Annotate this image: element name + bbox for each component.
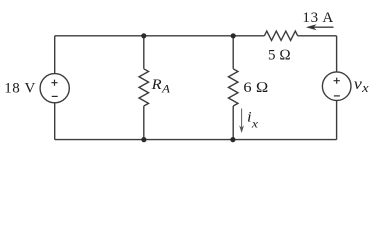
wire RA branch lower xyxy=(143,106,145,140)
svg-text:18 V: 18 V xyxy=(4,81,36,97)
wire left branch lower xyxy=(54,103,56,140)
voltage source 18V circle xyxy=(40,74,69,103)
plus sign inside 18V source xyxy=(51,80,57,86)
minus sign inside 18V source xyxy=(52,95,58,97)
svg-text:6 Ω: 6 Ω xyxy=(243,80,268,96)
svg-text:RA: RA xyxy=(151,76,171,95)
svg-text:13 A: 13 A xyxy=(302,10,334,26)
junction node top 6 ohm xyxy=(231,33,236,38)
wire 6 ohm branch upper xyxy=(232,36,234,69)
minus sign inside vx source xyxy=(334,95,340,97)
current arrow 13A line xyxy=(312,26,334,28)
junction node bottom 6 ohm xyxy=(230,137,235,142)
resistor RA zigzag xyxy=(139,69,149,106)
voltage source vx circle xyxy=(322,72,351,101)
svg-text:vx: vx xyxy=(354,75,369,94)
junction node top RA xyxy=(141,33,146,38)
wire top rail right section xyxy=(298,35,337,37)
current arrow 13A head xyxy=(306,24,317,30)
current arrow ix head xyxy=(239,125,244,133)
wire top rail left section xyxy=(55,35,265,37)
plus sign inside vx source xyxy=(334,78,340,84)
resistor 5 ohm zigzag xyxy=(264,31,297,40)
junction node bottom RA xyxy=(141,137,146,142)
wire right branch upper xyxy=(336,36,338,72)
svg-text:5 Ω: 5 Ω xyxy=(268,47,291,63)
resistor 6 ohm zigzag xyxy=(228,69,238,106)
wire left branch upper xyxy=(54,36,56,74)
wire right branch lower xyxy=(336,101,338,140)
wire 6 ohm branch lower xyxy=(232,106,234,140)
wire RA branch upper xyxy=(143,36,145,69)
svg-text:ix: ix xyxy=(247,109,258,130)
current arrow ix line xyxy=(241,109,243,130)
wire bottom rail xyxy=(55,139,337,141)
